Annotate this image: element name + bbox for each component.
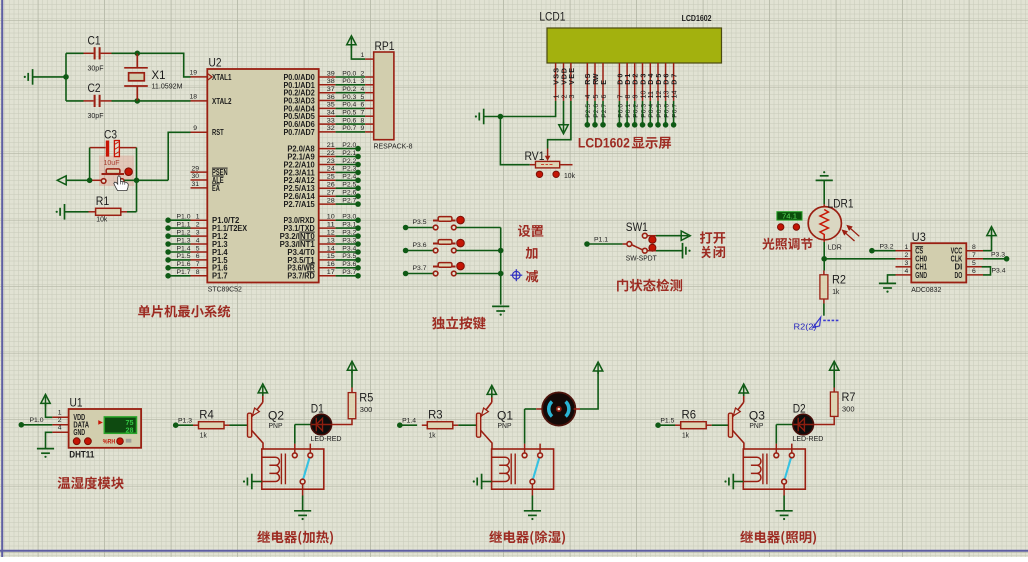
svg-text:P1.4: P1.4: [402, 418, 416, 425]
node VSS junction: [498, 114, 504, 120]
node P3.0: [355, 217, 361, 223]
relay RL (dehumidifier): [492, 449, 554, 489]
power arrow (door open): [678, 231, 690, 240]
LED D2 LED-RED: [793, 414, 814, 435]
wire: [775, 425, 777, 444]
ground (DHT11): [37, 449, 54, 458]
node P3.1: [355, 225, 361, 231]
node P2.5: [585, 122, 591, 128]
wire: [406, 250, 434, 252]
wire P0.5 to RP1: [319, 115, 336, 117]
relay RL (heater): [262, 449, 324, 489]
origin marker: [510, 269, 522, 281]
U3 pin CH0 (2): [896, 258, 912, 260]
indicator meter a: [778, 224, 784, 230]
wire: [336, 107, 366, 109]
svg-text:P2.2: P2.2: [342, 158, 356, 165]
node P1.6: [165, 265, 171, 271]
LCD pin D5 (12): [657, 63, 659, 101]
indicator SW1 a: [649, 236, 656, 243]
indicator DHT11 b: [85, 438, 92, 445]
svg-text:P1.7: P1.7: [177, 269, 191, 276]
switch SW1 SW-SPDT: [623, 243, 627, 245]
svg-text:PNP: PNP: [269, 421, 283, 430]
node LDR-R2-CH0: [821, 256, 827, 262]
resistor R6: [675, 424, 681, 426]
wire: [336, 131, 366, 133]
svg-text:2: 2: [361, 70, 365, 77]
sensor U1 DHT11: [52, 416, 68, 418]
svg-text:P2.3: P2.3: [342, 166, 356, 173]
label 加: [526, 247, 538, 259]
svg-text:2: 2: [196, 221, 200, 228]
wire: [124, 179, 168, 181]
svg-text:P2.5: P2.5: [342, 182, 356, 189]
node P1.1: [165, 225, 171, 231]
DHT11 display: [104, 417, 136, 433]
svg-text:25: 25: [327, 174, 335, 181]
svg-text:1k: 1k: [200, 432, 207, 439]
svg-text:5: 5: [196, 245, 200, 252]
wire: [336, 92, 366, 94]
wire P3.2: [319, 235, 336, 237]
indicator (button): [125, 168, 133, 176]
svg-text:14: 14: [327, 245, 335, 252]
U3 pin VCC (8): [966, 250, 983, 252]
svg-text:21: 21: [327, 142, 335, 149]
svg-text:3: 3: [196, 229, 200, 236]
svg-text:U2: U2: [209, 56, 222, 70]
wire R7 to VCC: [833, 370, 835, 387]
resistor R7 300: [830, 392, 838, 416]
wire P0.1: [626, 101, 628, 125]
wire: [406, 227, 434, 229]
wire: [484, 101, 556, 117]
svg-text:P1.5: P1.5: [660, 418, 674, 425]
svg-text:P1.3: P1.3: [178, 418, 192, 425]
svg-text:P0.0: P0.0: [342, 70, 356, 77]
svg-text:300: 300: [360, 407, 373, 414]
svg-text:P2.0: P2.0: [342, 142, 356, 149]
wire: [888, 275, 896, 283]
LCD pin D4 (11): [649, 63, 651, 101]
wire: [525, 408, 537, 410]
svg-text:2: 2: [905, 252, 909, 259]
MCU U2 STC89C52: [207, 69, 318, 283]
wire P1.6: [191, 267, 208, 269]
LCD pin E (6): [602, 63, 604, 101]
wire P1.2: [191, 235, 208, 237]
wire: [823, 180, 825, 204]
power arrow U3 VCC: [987, 227, 996, 239]
svg-text:8: 8: [972, 244, 976, 251]
svg-text:R6: R6: [682, 410, 697, 422]
wire: [168, 132, 190, 180]
svg-text:1k: 1k: [832, 289, 839, 296]
node P1.0: [165, 217, 171, 223]
node P3.3: [355, 241, 361, 247]
LCD pin D1 (8): [626, 63, 628, 101]
svg-text:P0.4: P0.4: [342, 102, 356, 109]
wire: [336, 235, 358, 237]
resistor R3: [422, 424, 428, 426]
wire: [168, 227, 190, 229]
wire P2.5: [319, 187, 336, 189]
node P3.5 (button): [403, 225, 409, 231]
resistor pack RP1 RESPACK-8: [374, 52, 394, 140]
wire: [66, 100, 84, 102]
ground (relay coil RL (light)): [724, 474, 733, 490]
node P1.7: [165, 273, 171, 279]
transistor Q1 (PNP): [477, 413, 481, 437]
node P2.1: [355, 154, 361, 160]
svg-text:P0.0: P0.0: [617, 104, 624, 118]
resistor R5 300: [348, 393, 356, 419]
wire P2.4: [319, 179, 336, 181]
wire P0.5: [657, 101, 659, 125]
U3 pin CLK (7): [966, 258, 983, 260]
node P2.4: [355, 178, 361, 184]
motor/fan: [536, 408, 542, 410]
svg-text:RV1: RV1: [525, 151, 545, 163]
power arrow R5: [347, 361, 356, 373]
node P0.6: [663, 122, 669, 128]
label 继电器(加热): [257, 531, 333, 545]
indicator meter b: [793, 224, 799, 230]
svg-text:P0.2: P0.2: [633, 104, 640, 118]
indicator (button P3.5): [457, 216, 465, 224]
capacitor C3 10uF: [90, 147, 137, 149]
svg-text:10uF: 10uF: [104, 160, 120, 167]
LED D1 LED-RED: [311, 414, 332, 435]
node XTAL2 net: [135, 98, 141, 104]
svg-text:27: 27: [327, 190, 335, 197]
wire: [983, 236, 992, 251]
U3 pin CH1 (3): [896, 266, 912, 268]
svg-text:6: 6: [972, 268, 976, 275]
LCD pin VEE (3): [570, 63, 572, 101]
svg-text:P3.2: P3.2: [342, 229, 356, 236]
svg-text:P1.0: P1.0: [30, 417, 44, 424]
svg-text:P0.2: P0.2: [342, 86, 356, 93]
node P2.0: [355, 146, 361, 152]
svg-text:38: 38: [327, 78, 335, 85]
node P3.6 (button): [403, 248, 409, 254]
svg-text:P0.7/AD7: P0.7/AD7: [284, 128, 316, 137]
node XTAL1 net: [135, 51, 141, 57]
power arrow R7: [830, 361, 839, 373]
svg-text:37: 37: [327, 86, 335, 93]
pin 9 RST stub: [191, 131, 208, 133]
ground (relay coil RL (dehumidifier)): [473, 474, 482, 490]
svg-text:36: 36: [327, 94, 335, 101]
svg-text:32: 32: [327, 125, 335, 132]
ground (SW1): [683, 243, 691, 259]
LCD pin D0 (7): [618, 63, 620, 101]
node P1.5: [655, 422, 661, 428]
wire: [336, 243, 358, 245]
wire P3.0: [319, 219, 336, 221]
wire P1.7: [191, 275, 208, 277]
svg-text:7: 7: [972, 252, 976, 259]
wire P1.4: [191, 251, 208, 253]
node osc-gnd junction: [63, 74, 69, 80]
wire: [336, 195, 358, 197]
wire: [168, 235, 190, 237]
svg-text:P3.5: P3.5: [413, 219, 427, 226]
wire: [336, 84, 366, 86]
ground (oscillator): [24, 69, 33, 85]
svg-text:12: 12: [327, 229, 335, 236]
transistor Q2 (PNP): [248, 413, 252, 437]
ground (LCD VSS): [475, 109, 484, 125]
wire: [482, 481, 492, 483]
svg-text:C1: C1: [88, 36, 101, 48]
svg-text:10: 10: [327, 214, 335, 221]
wire: [137, 53, 190, 77]
potentiometer RV1 10k: [536, 161, 560, 168]
ground (U3): [879, 283, 896, 292]
wire P0.1 to RP1: [319, 84, 336, 86]
wire: [66, 179, 89, 181]
wire: [302, 496, 304, 511]
node P0.4: [648, 122, 654, 128]
node P2.7: [355, 201, 361, 207]
power arrow RP1: [347, 36, 356, 48]
selection highlight: [99, 156, 134, 187]
wire: [252, 481, 262, 483]
svg-text:GND: GND: [73, 428, 85, 437]
node P0.7: [671, 122, 677, 128]
wire: [336, 179, 358, 181]
svg-text:15: 15: [327, 253, 335, 260]
svg-text:P1.3: P1.3: [177, 237, 191, 244]
wire P0.0 to RP1: [319, 76, 336, 78]
wire P1.0 DATA: [21, 424, 52, 426]
svg-text:4: 4: [58, 425, 62, 432]
label 门状态检测: [617, 279, 682, 292]
label 温湿度模块: [58, 477, 124, 490]
svg-text:8: 8: [361, 117, 365, 124]
svg-text:10k: 10k: [96, 216, 107, 223]
crystal X1: [124, 53, 148, 101]
U3 pin CS (1): [896, 250, 912, 252]
wire P2.2: [319, 164, 336, 166]
wire: [656, 235, 681, 237]
svg-text:GND: GND: [915, 271, 927, 280]
svg-text:23: 23: [327, 158, 335, 165]
wire D1 to R5: [332, 419, 352, 425]
svg-text:LDR1: LDR1: [828, 199, 854, 211]
wire: [336, 187, 358, 189]
svg-text:11: 11: [327, 221, 335, 228]
wire: [982, 267, 991, 275]
node P3.2: [869, 248, 875, 254]
wire R4 to Q2 base: [230, 424, 248, 426]
svg-text:C2: C2: [88, 83, 101, 95]
svg-text:▶: ▶: [98, 420, 103, 426]
node P3.2: [355, 233, 361, 239]
wire P0.7: [673, 101, 675, 125]
wire P0.0: [618, 101, 620, 125]
svg-text:D2: D2: [793, 404, 806, 416]
node P2.5: [355, 185, 361, 191]
ground (relay RL (dehumidifier)): [524, 511, 541, 520]
svg-text:E: E: [599, 80, 608, 85]
svg-text:7: 7: [361, 110, 365, 117]
resistor R4: [193, 424, 199, 426]
wire P0.4 to RP1: [319, 107, 336, 109]
svg-text:P3.7: P3.7: [413, 265, 427, 272]
wire: [456, 273, 500, 275]
wire: [351, 45, 365, 59]
relay switch lever: [303, 456, 310, 480]
node P1.0: [19, 422, 25, 428]
indicator RV1 -: [536, 171, 542, 177]
svg-text:D1: D1: [311, 404, 324, 416]
power arrow motor: [593, 362, 602, 374]
LCD pin RW (5): [594, 63, 596, 101]
RV1 wiper arrow: [547, 149, 549, 158]
svg-text:33: 33: [327, 117, 335, 124]
svg-text:18: 18: [189, 93, 197, 100]
wire: [127, 211, 137, 213]
svg-text:1k: 1k: [429, 432, 436, 439]
wire: [336, 156, 358, 158]
node P1.2: [165, 233, 171, 239]
svg-text:11.0592M: 11.0592M: [152, 82, 183, 91]
ground (relay RL (heater)): [294, 511, 311, 520]
wire R5 to VCC: [351, 370, 353, 387]
U3 pin GND (4): [896, 274, 912, 276]
wire P2.7: [602, 101, 604, 125]
wire: [336, 259, 358, 261]
meter readout 74.1: [777, 212, 802, 220]
wire: [33, 76, 66, 78]
svg-text:P3.0: P3.0: [342, 214, 356, 221]
svg-text:DO: DO: [955, 271, 963, 280]
svg-text:9: 9: [193, 125, 197, 132]
wire P3.7: [319, 275, 336, 277]
label 减: [526, 270, 539, 282]
svg-text:28: 28: [327, 197, 335, 204]
wire: [406, 273, 434, 275]
wire P0.3 to RP1: [319, 100, 336, 102]
svg-text:19: 19: [189, 70, 197, 77]
node P3.4: [355, 249, 361, 255]
svg-text:6: 6: [196, 253, 200, 260]
svg-text:LED-RED: LED-RED: [311, 434, 342, 443]
svg-text:75: 75: [126, 420, 134, 427]
node P3.6: [355, 265, 361, 271]
wire: [500, 228, 502, 305]
svg-text:17: 17: [327, 269, 335, 276]
svg-text:26: 26: [327, 182, 335, 189]
transistor Q3 (PNP): [728, 413, 732, 437]
svg-text:P0.3: P0.3: [342, 94, 356, 101]
power arrow DHT11 VDD: [41, 394, 50, 406]
wire P1.3 to R: [176, 424, 193, 426]
wire: [262, 392, 264, 394]
wire: [336, 123, 366, 125]
wire: [336, 148, 358, 150]
LCD pin VDD (2): [563, 63, 565, 101]
LCD pin RS (4): [586, 63, 588, 101]
LCD pin D2 (9): [634, 63, 636, 101]
svg-text:9: 9: [361, 125, 365, 132]
node P0.1: [624, 122, 630, 128]
svg-text:8: 8: [196, 269, 200, 276]
indicator DHT11 c: [117, 438, 124, 445]
indicator RV1 +: [553, 171, 559, 177]
relay switch lever: [533, 456, 540, 480]
svg-text:P0.1: P0.1: [625, 104, 632, 118]
svg-text:10k: 10k: [564, 171, 575, 180]
label 光照调节: [762, 238, 812, 250]
svg-text:DHT11: DHT11: [69, 450, 94, 460]
node P3.7 (button): [403, 271, 409, 277]
svg-text:P1.1: P1.1: [177, 221, 191, 228]
svg-text:28: 28: [126, 427, 134, 434]
svg-text:SW1: SW1: [626, 222, 648, 234]
svg-text:LDR: LDR: [828, 243, 842, 252]
LDR1: [823, 204, 825, 209]
svg-text:R4: R4: [199, 410, 214, 422]
svg-text:5: 5: [361, 94, 365, 101]
svg-text:P0.7: P0.7: [342, 125, 356, 132]
indicator SW1 b: [649, 244, 656, 251]
wire P1.3: [191, 243, 208, 245]
svg-text:PNP: PNP: [749, 421, 763, 430]
wire R6 to Q3 base: [712, 424, 729, 426]
svg-text:P3.3: P3.3: [991, 251, 1005, 258]
push button (reset): [101, 179, 106, 184]
svg-text:P3.4: P3.4: [992, 267, 1006, 274]
node P3.5: [355, 257, 361, 263]
wire P1.0: [191, 219, 208, 221]
power arrow Q3 emitter: [739, 384, 748, 396]
pin XTAL1 clock marker: [207, 73, 212, 80]
ground (buttons): [492, 306, 509, 315]
svg-text:31: 31: [191, 181, 199, 188]
wire: [336, 171, 358, 173]
svg-text:3: 3: [567, 95, 576, 99]
LCD pin VSS (1): [555, 63, 557, 101]
wire P3.5: [319, 259, 336, 261]
svg-text:U1: U1: [70, 396, 83, 410]
svg-text:1: 1: [196, 214, 200, 221]
wire: [168, 219, 190, 221]
wire: [336, 267, 358, 269]
svg-text:P3.1: P3.1: [342, 221, 356, 228]
wire: [733, 481, 743, 483]
svg-text:R7: R7: [842, 392, 856, 404]
svg-text:XTAL1: XTAL1: [212, 73, 232, 82]
mouse cursor hand: [114, 176, 129, 191]
svg-text:P3.3: P3.3: [342, 237, 356, 244]
node P3.7: [355, 273, 361, 279]
label 关闭: [701, 246, 725, 258]
pin 19 XTAL1 stub: [191, 76, 208, 78]
svg-text:P0.3: P0.3: [640, 104, 647, 118]
svg-text:RESPACK-8: RESPACK-8: [374, 142, 413, 151]
node P2.6: [592, 122, 598, 128]
svg-text:R5: R5: [359, 393, 373, 405]
arrow (reset net): [57, 176, 66, 185]
wire P0.3: [642, 101, 644, 125]
svg-text:P3.6: P3.6: [342, 261, 356, 268]
svg-text:1k: 1k: [682, 432, 689, 439]
